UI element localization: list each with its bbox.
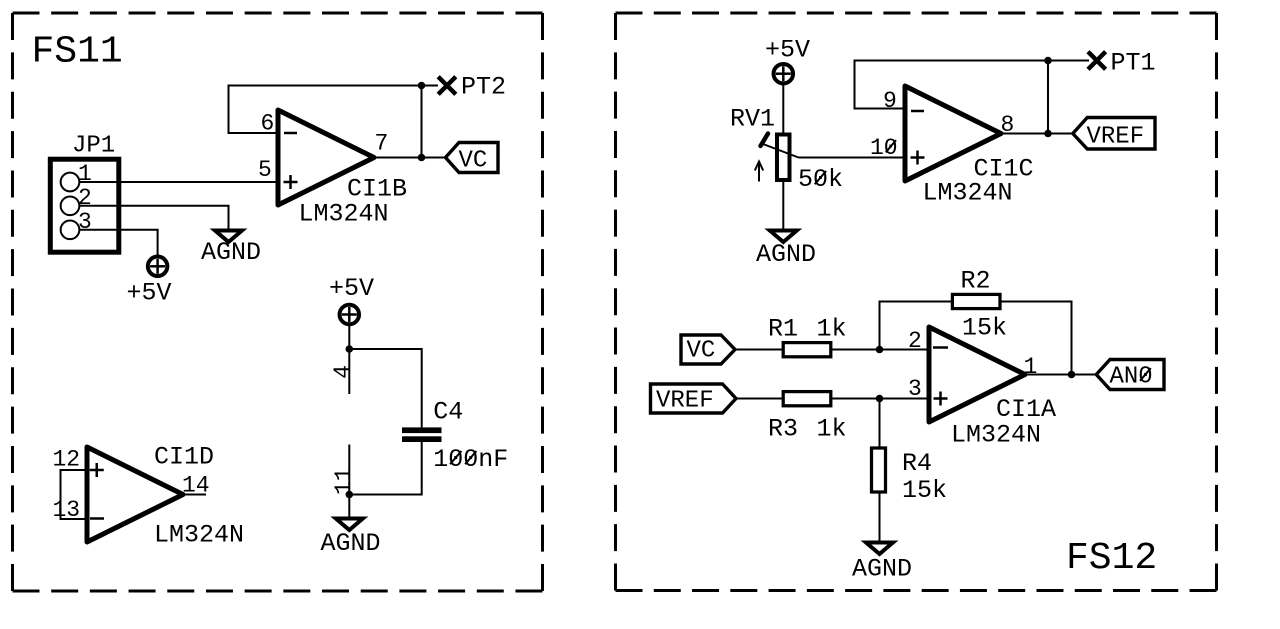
output flag VREF [1073, 118, 1155, 150]
svg-text:100nF: 100nF [433, 445, 508, 474]
svg-text:AGND: AGND [852, 555, 912, 584]
capacitor C4 [349, 349, 441, 495]
svg-text:+5V: +5V [765, 36, 810, 65]
svg-text:VREF: VREF [1087, 124, 1145, 151]
svg-text:2: 2 [78, 185, 92, 211]
svg-text:C4: C4 [433, 398, 463, 427]
junction pin11 node [346, 491, 354, 499]
wire pin11 node to AGND [348, 495, 350, 519]
junction feedback/PT2 node [418, 82, 426, 90]
wire R1 to CI1A pin2 [831, 349, 929, 351]
wire CI1B output [374, 157, 446, 159]
ground AGND (C4) [336, 519, 363, 531]
feedback wire CI1C pin8 to pin9 [855, 61, 1049, 109]
svg-text:5: 5 [258, 157, 272, 183]
svg-text:3: 3 [908, 376, 922, 402]
wire RV1 wiper to CI1C pin10 [799, 157, 906, 159]
svg-text:R2: R2 [961, 267, 991, 296]
svg-text:LM324N: LM324N [923, 179, 1013, 208]
svg-text:2: 2 [908, 328, 922, 354]
wire VC to R1 [735, 349, 784, 351]
svg-text:VREF: VREF [656, 388, 714, 415]
test point PT1 [1088, 52, 1106, 70]
wire +5V to RV1 [782, 84, 784, 135]
svg-text:1k: 1k [817, 415, 847, 444]
RV1 adjustment arrow [755, 162, 763, 182]
svg-text:AGND: AGND [201, 238, 261, 267]
wire JP1 pin2 to AGND [79, 206, 228, 229]
wire VREF to R3 [736, 398, 784, 400]
svg-text:50k: 50k [798, 165, 843, 194]
junction pin4 node [346, 345, 354, 353]
svg-text:1k: 1k [817, 315, 847, 344]
test point PT2 [438, 77, 456, 95]
svg-text:10: 10 [870, 135, 898, 161]
ground AGND (JP1) [215, 231, 242, 243]
svg-text:PT1: PT1 [1111, 49, 1156, 78]
svg-text:LM324N: LM324N [154, 521, 244, 550]
wire +5V to pin4 node [348, 325, 350, 350]
junction pin2 node [876, 346, 884, 354]
svg-text:VC: VC [459, 148, 488, 175]
svg-text:AN0: AN0 [1110, 364, 1153, 391]
ground AGND (R4) [866, 543, 893, 555]
svg-text:R1: R1 [768, 315, 798, 344]
wire PT2 branch [422, 86, 439, 158]
svg-text:RV1: RV1 [730, 105, 775, 134]
CI1D minus input marker [90, 517, 104, 520]
resistor R2 [952, 294, 1000, 308]
CI1C plus input marker [911, 151, 925, 165]
op-amp CI1C [905, 86, 1001, 181]
CI1A plus input marker [934, 392, 948, 406]
svg-text:LM324N: LM324N [951, 421, 1041, 450]
svg-text:7: 7 [375, 131, 389, 157]
junction AN0 node [1068, 371, 1076, 379]
FS12 block border [616, 13, 1217, 591]
wire JP1 pin3 to +5V [79, 230, 157, 256]
wire pin3 node to R4 [879, 399, 881, 449]
output flag AN0 [1096, 360, 1164, 390]
CI1A minus input marker [933, 346, 948, 349]
svg-text:AGND: AGND [321, 529, 381, 558]
CI1B plus input marker [284, 175, 298, 189]
wire RV1 to AGND [782, 180, 784, 229]
svg-text:PT2: PT2 [461, 73, 506, 102]
junction pin3 node [876, 395, 884, 403]
output flag VC [446, 143, 499, 173]
svg-text:VC: VC [687, 338, 716, 365]
junction PT1 node [1044, 57, 1052, 65]
op-amp CI1A [929, 327, 1025, 422]
svg-text:3: 3 [78, 209, 92, 235]
svg-text:+5V: +5V [127, 279, 172, 308]
power +5V (C4) [340, 305, 360, 325]
svg-text:R3: R3 [768, 415, 798, 444]
svg-text:11: 11 [331, 467, 357, 495]
pin 11 stub [348, 445, 350, 495]
feedback wire R2 left [880, 302, 954, 350]
wire pins 12-13 short [61, 470, 88, 519]
svg-text:LM324N: LM324N [299, 200, 389, 229]
wire PT1 branch [1048, 61, 1089, 134]
op-amp CI1B [278, 110, 374, 205]
connector JP1 [50, 159, 119, 252]
svg-text:9: 9 [883, 88, 897, 114]
input flag VC [681, 335, 735, 364]
pin 4 stub [348, 349, 350, 394]
svg-text:12: 12 [53, 447, 81, 473]
svg-text:1: 1 [1024, 354, 1038, 380]
feedback wire CI1B pin7 to pin6 [229, 86, 422, 134]
svg-text:4: 4 [330, 365, 356, 379]
svg-text:JP1: JP1 [72, 133, 115, 160]
svg-text:R4: R4 [902, 449, 932, 478]
pin 14 stub [183, 494, 206, 496]
feedback wire R2 right [1000, 302, 1072, 375]
svg-text:+5V: +5V [329, 274, 374, 303]
svg-text:CI1D: CI1D [154, 443, 214, 472]
CI1B minus input marker [284, 132, 297, 135]
ground AGND (RV1) [770, 231, 797, 243]
power +5V (JP1) [148, 257, 168, 277]
svg-text:15k: 15k [902, 476, 947, 505]
power +5V (RV1) [774, 64, 794, 84]
wire CI1A output [1025, 374, 1096, 376]
svg-text:FS12: FS12 [1066, 537, 1157, 580]
svg-text:14: 14 [182, 473, 210, 499]
wire JP1 pin1 to CI1B pin5 [79, 181, 278, 183]
svg-text:AGND: AGND [756, 240, 816, 269]
wire R3 to CI1A pin3 [831, 398, 929, 400]
svg-text:13: 13 [53, 497, 81, 523]
op-amp CI1D [87, 447, 183, 542]
resistor R4 [872, 448, 886, 492]
wire R4 to AGND [879, 492, 881, 542]
svg-text:1: 1 [78, 161, 92, 187]
FS11 block border [13, 13, 543, 591]
wire CI1C output [1001, 133, 1073, 135]
potentiometer RV1 [761, 134, 799, 181]
resistor R1 [783, 343, 831, 357]
svg-text:15k: 15k [962, 314, 1007, 343]
svg-text:FS11: FS11 [32, 31, 123, 74]
input flag VREF [651, 384, 737, 413]
resistor R3 [783, 392, 831, 406]
CI1C minus input marker [911, 110, 924, 113]
CI1D plus input marker [90, 463, 104, 477]
junction VC output node [418, 154, 426, 162]
junction VREF output node [1044, 130, 1052, 138]
